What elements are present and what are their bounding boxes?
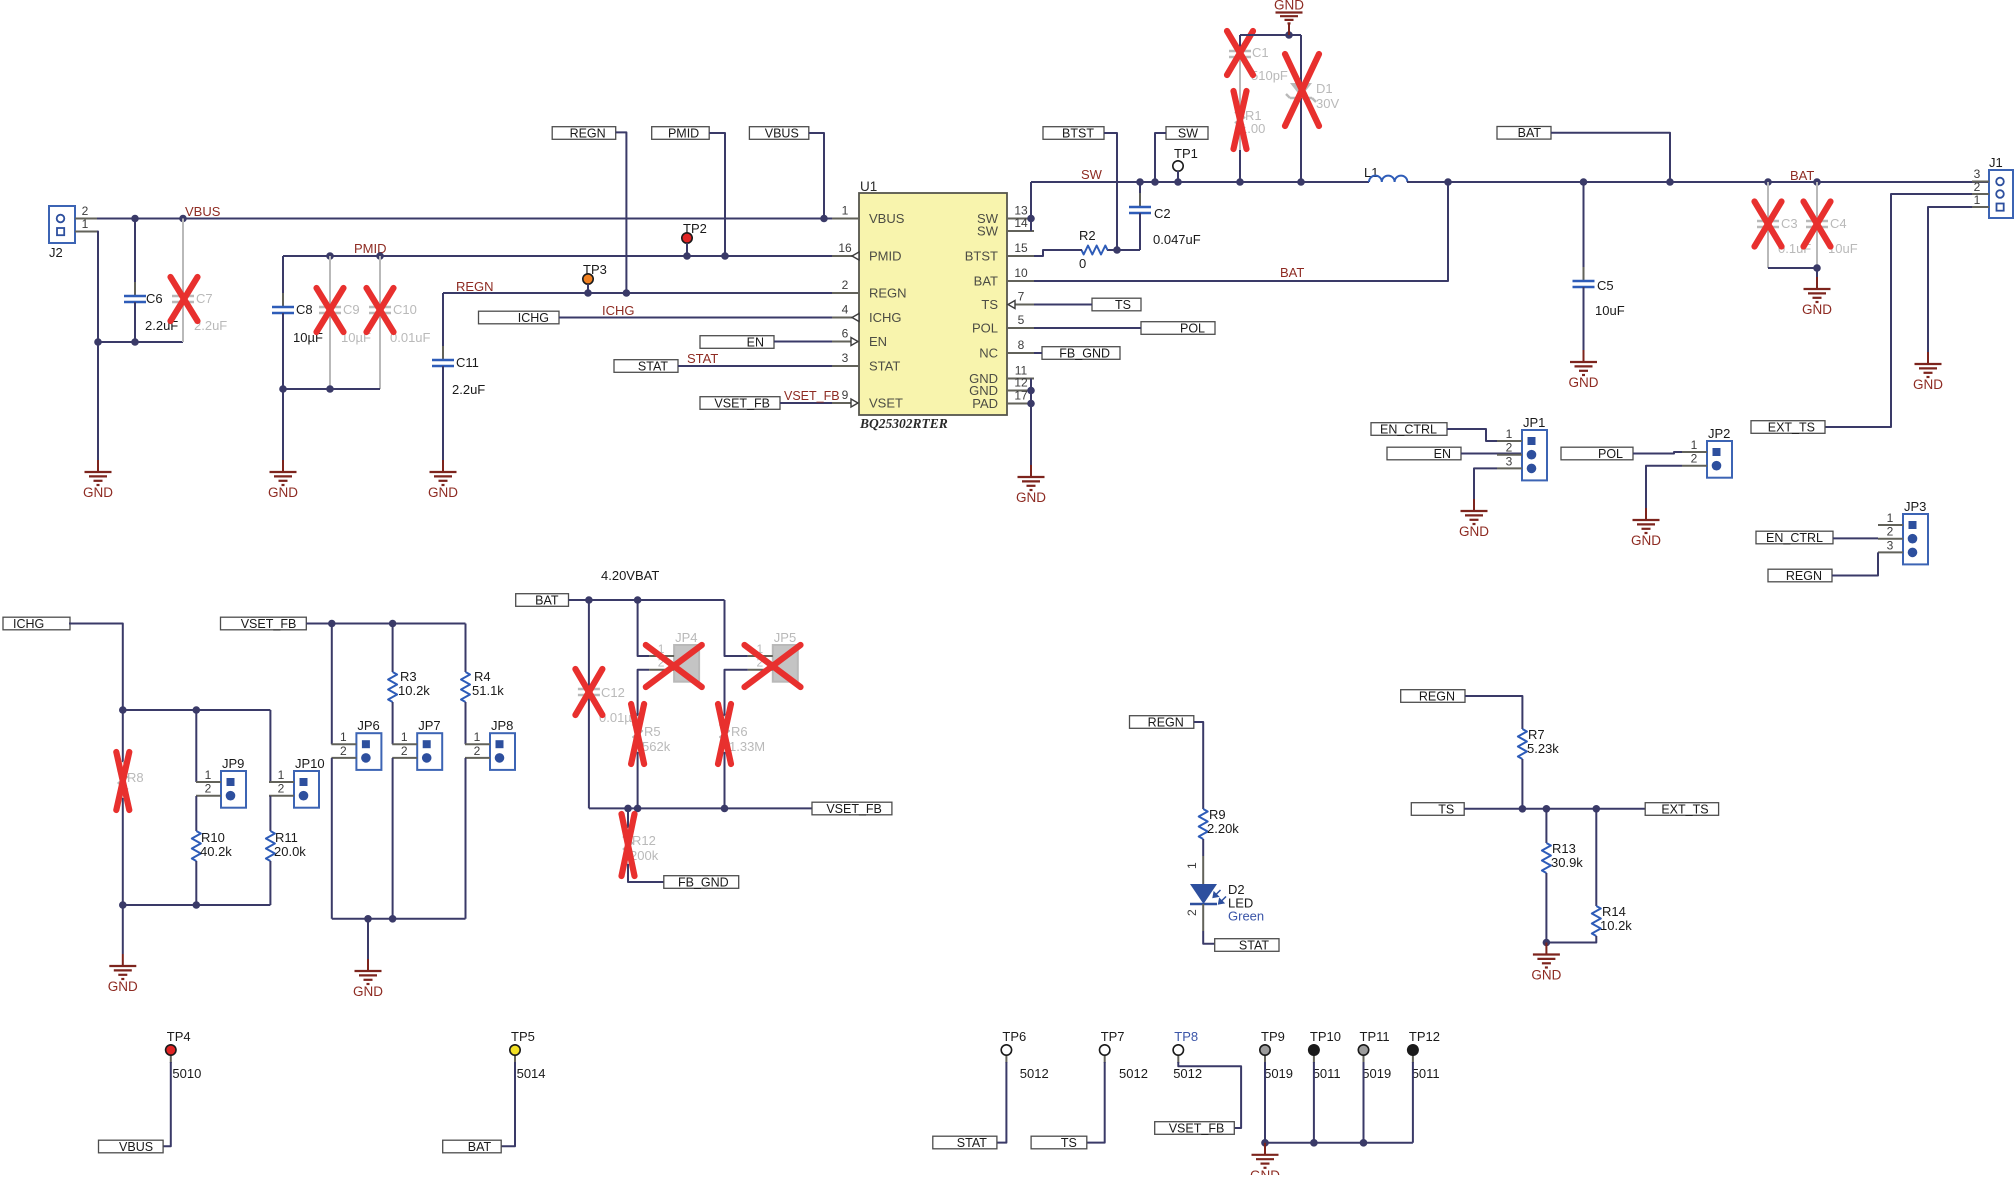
svg-text:7: 7	[1018, 290, 1025, 304]
svg-text:9: 9	[842, 388, 849, 402]
svg-text:TP6: TP6	[1002, 1029, 1026, 1044]
svg-text:5011: 5011	[1412, 1066, 1440, 1081]
svg-text:1: 1	[842, 204, 849, 218]
svg-text:1: 1	[1185, 862, 1199, 869]
svg-text:R13: R13	[1552, 841, 1576, 856]
svg-text:GND: GND	[1459, 524, 1489, 539]
svg-text:R8: R8	[127, 770, 144, 785]
svg-text:JP3: JP3	[1904, 499, 1926, 514]
svg-text:2: 2	[340, 744, 347, 758]
svg-text:C12: C12	[601, 685, 625, 700]
svg-text:C11: C11	[456, 355, 479, 370]
svg-text:VSET_FB: VSET_FB	[784, 389, 840, 403]
svg-text:4: 4	[842, 303, 849, 317]
svg-text:20.0k: 20.0k	[274, 844, 306, 859]
svg-text:2: 2	[1887, 525, 1894, 539]
svg-text:ICHG: ICHG	[602, 303, 635, 318]
svg-text:51.1k: 51.1k	[472, 683, 504, 698]
svg-text:JP4: JP4	[675, 630, 697, 645]
svg-text:BQ25302RTER: BQ25302RTER	[859, 416, 948, 431]
svg-text:510pF: 510pF	[1251, 68, 1288, 83]
svg-text:5012: 5012	[1173, 1066, 1202, 1081]
svg-text:5: 5	[1018, 313, 1025, 327]
svg-text:SW: SW	[977, 224, 999, 239]
svg-text:8: 8	[1018, 338, 1025, 352]
svg-text:5014: 5014	[517, 1066, 546, 1081]
svg-text:GND: GND	[1913, 377, 1943, 392]
svg-text:1: 1	[1506, 427, 1513, 441]
svg-text:2: 2	[1691, 452, 1698, 466]
svg-text:EN: EN	[1434, 447, 1451, 461]
svg-text:GND: GND	[1802, 302, 1832, 317]
svg-text:2: 2	[278, 782, 285, 796]
svg-text:GND: GND	[83, 485, 113, 500]
svg-text:R9: R9	[1209, 807, 1226, 822]
svg-text:2: 2	[474, 744, 481, 758]
svg-text:17: 17	[1014, 389, 1028, 403]
svg-text:1: 1	[82, 217, 89, 231]
svg-text:BAT: BAT	[535, 593, 559, 607]
svg-text:JP5: JP5	[774, 630, 796, 645]
svg-text:10.2k: 10.2k	[398, 683, 430, 698]
svg-text:1: 1	[340, 730, 347, 744]
svg-text:14: 14	[1014, 216, 1028, 230]
svg-text:C4: C4	[1830, 216, 1847, 231]
svg-text:TP4: TP4	[167, 1029, 191, 1044]
svg-text:GND: GND	[1274, 0, 1304, 13]
svg-text:BAT: BAT	[468, 1140, 492, 1154]
svg-text:1: 1	[205, 768, 212, 782]
svg-text:EN_CTRL: EN_CTRL	[1766, 531, 1823, 545]
svg-text:VSET_FB: VSET_FB	[714, 396, 770, 410]
svg-text:EN: EN	[869, 334, 887, 349]
svg-text:SW: SW	[1081, 167, 1103, 182]
svg-text:30.9k: 30.9k	[1551, 855, 1583, 870]
svg-text:1: 1	[278, 768, 285, 782]
svg-text:STAT: STAT	[638, 359, 668, 373]
svg-text:2: 2	[401, 744, 408, 758]
svg-text:GND: GND	[428, 485, 458, 500]
svg-text:TS: TS	[981, 297, 998, 312]
svg-text:VBUS: VBUS	[869, 211, 905, 226]
svg-text:Green: Green	[1228, 909, 1264, 924]
svg-text:TP9: TP9	[1261, 1029, 1285, 1044]
svg-text:C8: C8	[296, 302, 313, 317]
svg-text:TP10: TP10	[1310, 1029, 1341, 1044]
svg-text:5019: 5019	[1264, 1066, 1293, 1081]
svg-text:POL: POL	[1180, 321, 1205, 335]
svg-text:GND: GND	[1631, 533, 1661, 548]
svg-text:REGN: REGN	[456, 279, 494, 294]
svg-text:NC: NC	[979, 346, 998, 361]
svg-text:STAT: STAT	[687, 351, 718, 366]
svg-text:D1: D1	[1316, 81, 1333, 96]
svg-text:BAT: BAT	[1518, 126, 1542, 140]
svg-text:C2: C2	[1154, 206, 1171, 221]
svg-text:TP5: TP5	[511, 1029, 535, 1044]
svg-text:C6: C6	[146, 291, 163, 306]
svg-text:GND: GND	[1016, 490, 1046, 505]
svg-text:GND: GND	[1250, 1168, 1280, 1175]
svg-text:VSET_FB: VSET_FB	[241, 617, 297, 631]
svg-text:U1: U1	[860, 179, 877, 194]
svg-text:2: 2	[1506, 441, 1513, 455]
svg-text:30V: 30V	[1316, 96, 1339, 111]
svg-text:JP6: JP6	[357, 718, 379, 733]
svg-text:FB_GND: FB_GND	[678, 875, 729, 889]
svg-text:5012: 5012	[1020, 1066, 1049, 1081]
svg-text:EN_CTRL: EN_CTRL	[1380, 422, 1437, 436]
svg-text:2: 2	[205, 782, 212, 796]
svg-text:GND: GND	[1569, 375, 1599, 390]
svg-text:BTST: BTST	[1062, 126, 1094, 140]
svg-text:1: 1	[1887, 511, 1894, 525]
svg-text:VSET_FB: VSET_FB	[1169, 1121, 1225, 1135]
svg-text:15: 15	[1014, 241, 1028, 255]
svg-text:1: 1	[1974, 193, 1981, 207]
svg-text:10uF: 10uF	[1595, 303, 1625, 318]
svg-text:J2: J2	[49, 245, 63, 260]
svg-text:C3: C3	[1781, 216, 1798, 231]
svg-text:40.2k: 40.2k	[200, 844, 232, 859]
svg-text:ICHG: ICHG	[518, 311, 549, 325]
svg-text:GND: GND	[268, 485, 298, 500]
svg-text:JP7: JP7	[418, 718, 440, 733]
svg-text:5011: 5011	[1313, 1066, 1341, 1081]
svg-text:10: 10	[1014, 266, 1028, 280]
svg-text:ICHG: ICHG	[13, 617, 44, 631]
svg-text:BAT: BAT	[1790, 168, 1814, 183]
svg-text:VSET_FB: VSET_FB	[826, 802, 882, 816]
svg-text:R7: R7	[1528, 727, 1545, 742]
svg-text:2: 2	[82, 204, 89, 218]
svg-text:JP10: JP10	[295, 756, 325, 771]
svg-text:GND: GND	[108, 979, 138, 994]
svg-text:SW: SW	[1178, 126, 1198, 140]
svg-text:EXT_TS: EXT_TS	[1661, 802, 1708, 816]
svg-text:REGN: REGN	[570, 126, 606, 140]
svg-text:EN: EN	[747, 335, 764, 349]
svg-text:C1: C1	[1252, 45, 1269, 60]
svg-text:J1: J1	[1989, 155, 2003, 170]
svg-text:STAT: STAT	[869, 359, 900, 374]
svg-text:R5: R5	[644, 724, 661, 739]
svg-text:JP2: JP2	[1708, 426, 1730, 441]
svg-text:REGN: REGN	[1786, 569, 1822, 583]
svg-text:VBUS: VBUS	[185, 204, 221, 219]
svg-text:R11: R11	[275, 830, 298, 845]
svg-text:JP1: JP1	[1523, 415, 1545, 430]
svg-text:16: 16	[838, 241, 852, 255]
svg-text:562k: 562k	[642, 739, 671, 754]
svg-text:C10: C10	[393, 302, 417, 317]
svg-text:C7: C7	[196, 291, 213, 306]
svg-text:REGN: REGN	[869, 286, 907, 301]
svg-text:R12: R12	[632, 833, 656, 848]
svg-text:STAT: STAT	[1239, 938, 1269, 952]
svg-text:ICHG: ICHG	[869, 310, 902, 325]
svg-text:R14: R14	[1602, 904, 1626, 919]
svg-text:R2: R2	[1079, 228, 1096, 243]
svg-text:BTST: BTST	[965, 249, 998, 264]
svg-text:2: 2	[842, 278, 849, 292]
svg-text:TS: TS	[1061, 1136, 1077, 1150]
svg-text:0: 0	[1079, 256, 1086, 271]
svg-text:REGN: REGN	[1148, 715, 1184, 729]
svg-text:FB_GND: FB_GND	[1059, 346, 1110, 360]
svg-text:5012: 5012	[1119, 1066, 1148, 1081]
svg-text:2.20k: 2.20k	[1207, 821, 1239, 836]
svg-text:TP8: TP8	[1174, 1029, 1198, 1044]
svg-text:1: 1	[474, 730, 481, 744]
svg-text:PMID: PMID	[668, 126, 699, 140]
svg-text:GND: GND	[353, 984, 383, 999]
svg-text:REGN: REGN	[1419, 689, 1455, 703]
svg-text:C5: C5	[1597, 278, 1614, 293]
svg-text:STAT: STAT	[957, 1136, 987, 1150]
svg-text:6: 6	[842, 327, 849, 341]
svg-text:3: 3	[1506, 454, 1513, 468]
svg-text:TP1: TP1	[1174, 146, 1198, 161]
svg-text:C9: C9	[343, 302, 360, 317]
svg-text:VBUS: VBUS	[765, 126, 799, 140]
svg-text:2.2uF: 2.2uF	[452, 382, 485, 397]
svg-text:2: 2	[1974, 180, 1981, 194]
svg-text:TP11: TP11	[1360, 1029, 1390, 1044]
svg-text:5.23k: 5.23k	[1527, 741, 1559, 756]
svg-text:1.33M: 1.33M	[729, 739, 765, 754]
svg-text:R10: R10	[201, 830, 225, 845]
svg-text:5010: 5010	[172, 1066, 201, 1081]
svg-text:12: 12	[1014, 376, 1028, 390]
svg-text:TS: TS	[1438, 802, 1454, 816]
svg-text:3: 3	[842, 351, 849, 365]
svg-text:0.047uF: 0.047uF	[1153, 232, 1201, 247]
svg-text:JP8: JP8	[491, 718, 513, 733]
svg-text:3: 3	[1974, 167, 1981, 181]
svg-text:VBUS: VBUS	[119, 1140, 153, 1154]
svg-text:GND: GND	[1531, 968, 1561, 983]
svg-text:R6: R6	[731, 724, 748, 739]
svg-text:BAT: BAT	[1280, 265, 1304, 280]
svg-text:EXT_TS: EXT_TS	[1768, 420, 1815, 434]
svg-text:1: 1	[401, 730, 408, 744]
svg-text:3: 3	[1887, 538, 1894, 552]
svg-text:POL: POL	[1598, 447, 1623, 461]
svg-text:PAD: PAD	[972, 396, 998, 411]
svg-text:2: 2	[1185, 909, 1199, 916]
svg-text:4.20VBAT: 4.20VBAT	[601, 568, 659, 583]
svg-text:5019: 5019	[1362, 1066, 1391, 1081]
svg-text:PMID: PMID	[869, 249, 902, 264]
svg-text:BAT: BAT	[974, 274, 998, 289]
svg-text:TP12: TP12	[1409, 1029, 1440, 1044]
svg-text:TS: TS	[1115, 298, 1131, 312]
svg-text:R3: R3	[400, 669, 417, 684]
svg-text:VSET: VSET	[869, 396, 903, 411]
svg-text:10.2k: 10.2k	[1600, 918, 1632, 933]
svg-text:JP9: JP9	[222, 756, 244, 771]
svg-text:POL: POL	[972, 321, 998, 336]
svg-text:R4: R4	[474, 669, 491, 684]
svg-text:TP7: TP7	[1101, 1029, 1125, 1044]
svg-text:1: 1	[1691, 438, 1698, 452]
